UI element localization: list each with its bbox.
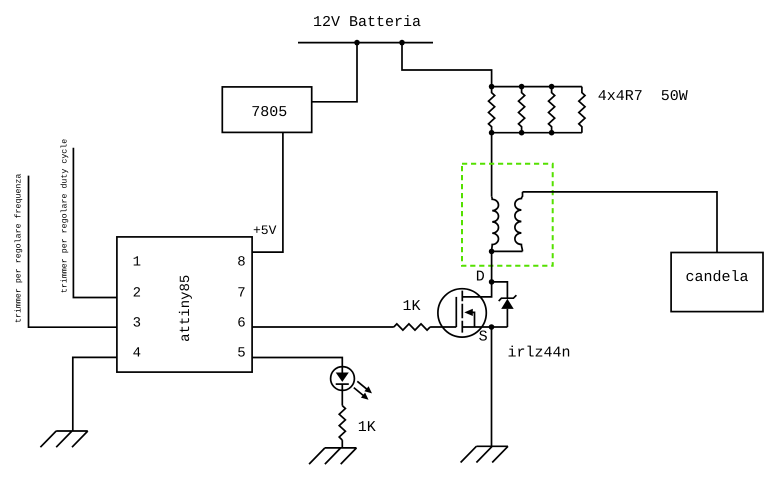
diode D1 zener flyback (499, 295, 517, 327)
junction dot resistor bottom rail (549, 130, 555, 136)
resistor R6 1K LED (339, 406, 345, 441)
wire gate resistor to gate (430, 326, 456, 328)
junction dot resistor top rail (519, 84, 525, 90)
pin 5 (237, 345, 245, 361)
wire 7805 output +5V to pin 8 (252, 132, 283, 252)
label trimmer per regolare duty cycle (60, 139, 70, 293)
load candela box (671, 253, 763, 312)
resistor R5 1K gate (394, 324, 430, 330)
wire pin 4 to ground (73, 357, 117, 431)
pin 3 (133, 315, 141, 331)
ground LED (309, 448, 356, 464)
pin 6 (237, 315, 245, 331)
svg-text:4x4R7 50W: 4x4R7 50W (598, 88, 688, 105)
junction dot node D (489, 279, 495, 285)
Q1 gate bar (455, 297, 457, 327)
resistor R4 4R7 (579, 87, 585, 133)
svg-text:trimmer per regolare frequenza: trimmer per regolare frequenza (13, 174, 23, 323)
wire node D to diode cathode (492, 282, 508, 298)
node 12V battery rail (298, 42, 433, 44)
wire battery to resistor bank (402, 43, 492, 87)
svg-text:attiny85: attiny85 (178, 275, 194, 342)
value label 1K gate (403, 298, 421, 315)
wire resistor bank to coil L1 (491, 133, 493, 197)
svg-text:S: S (479, 329, 488, 346)
node S label (479, 329, 488, 346)
svg-text:1K: 1K (358, 419, 376, 436)
wire pin 3 trimmer frequenza (29, 176, 117, 328)
LED D2 (331, 367, 372, 400)
resistor R2 4R7 (519, 87, 525, 133)
wire resistor bank top rail (492, 86, 582, 88)
ground source (461, 446, 508, 462)
wire L2 to candela (523, 192, 718, 253)
Q1 source lead (462, 326, 491, 328)
ground pin4 (40, 431, 87, 447)
value label 4x4R7 50W (598, 88, 688, 105)
wire diode anode to node S (492, 326, 508, 328)
inductor L2 secondary coil (515, 192, 523, 252)
svg-text:candela: candela (686, 269, 749, 286)
label 12V Batteria (313, 14, 421, 31)
part label irlz44n (508, 345, 571, 362)
junction dot resistor bottom rail (489, 130, 495, 136)
node D label (476, 268, 485, 285)
wire pin6 to gate resistor (252, 326, 394, 328)
inductor L1 primary coil (492, 197, 499, 252)
wire coil bottoms link (492, 250, 523, 252)
svg-text:1K: 1K (403, 298, 421, 315)
svg-text:1: 1 (133, 255, 141, 271)
regulator U2 7805 (222, 87, 311, 132)
svg-text:+5V: +5V (253, 223, 277, 238)
junction dot resistor top rail (489, 84, 495, 90)
wire node S to ground (491, 327, 493, 446)
svg-text:3: 3 (133, 315, 141, 331)
Q1 channel segments (461, 291, 463, 333)
transistor Q1 irlz44n MOSFET body circle (438, 289, 486, 337)
pin 1 (133, 255, 141, 271)
svg-text:6: 6 (237, 315, 245, 331)
wire resistor bank bottom rail (492, 132, 582, 134)
wire LED to resistor (341, 384, 343, 406)
junction dot node S (489, 324, 495, 330)
wire pin 5 to LED (252, 358, 342, 373)
wire coil junction to drain node D (491, 251, 493, 282)
svg-text:7: 7 (237, 286, 245, 302)
svg-text:trimmer per regolare duty cycl: trimmer per regolare duty cycle (60, 139, 70, 293)
svg-text:5: 5 (237, 345, 245, 361)
svg-text:2: 2 (133, 286, 141, 302)
resistor R1 4R7 (489, 87, 495, 133)
pin 7 (237, 286, 245, 302)
Q1 body arrow (464, 309, 474, 327)
wire battery to 7805 input (312, 43, 357, 102)
net label +5V (253, 223, 277, 238)
svg-text:8: 8 (237, 255, 245, 271)
junction dot resistor bottom rail (519, 130, 525, 136)
pin 2 (133, 286, 141, 302)
junction dot battery-resistors (399, 40, 405, 46)
junction dot resistor top rail (549, 84, 555, 90)
resistor R3 4R7 (549, 87, 555, 133)
Q1 drain lead (462, 282, 491, 297)
svg-text:12V Batteria: 12V Batteria (313, 14, 421, 31)
pin 8 (237, 255, 245, 271)
label trimmer per regolare frequenza (13, 174, 23, 323)
induction coil enclosure (green dashed) (462, 164, 553, 266)
value label 1K LED (358, 419, 376, 436)
svg-text:irlz44n: irlz44n (508, 345, 571, 362)
junction dot battery-7805 (354, 40, 360, 46)
svg-text:4: 4 (133, 345, 141, 361)
IC U1 attiny85 (117, 237, 252, 372)
wire pin 2 trimmer duty cycle (73, 148, 117, 298)
junction dot coil bottom (489, 249, 495, 255)
svg-text:D: D (476, 268, 485, 285)
pin 4 (133, 345, 141, 361)
svg-text:7805: 7805 (251, 104, 287, 121)
wire resistor to ground (341, 440, 343, 448)
